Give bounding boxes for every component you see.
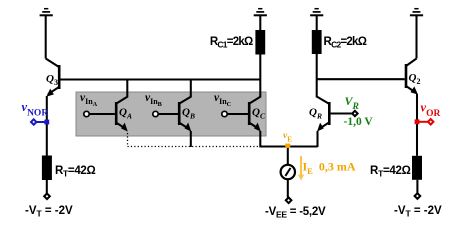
wire RT to terminal (46, 180, 48, 194)
wire emitter bus to vE and QR (259, 145, 317, 147)
terminal -VEE (265, 198, 326, 220)
svg-text:RT=42Ω: RT=42Ω (370, 165, 411, 179)
wire ground to Q3 collector (45, 15, 47, 58)
wire ground to RC2 (316, 15, 318, 30)
arrow IE (orange) (298, 156, 356, 181)
wire ground to Q2 collector (415, 15, 417, 58)
terminal -VT (right) (394, 193, 442, 218)
node vInA terminal (80, 92, 115, 117)
terminal VR (344, 94, 374, 128)
transistor Q3 (46, 59, 61, 97)
wire QB collector to bus (190, 80, 192, 98)
node vE (283, 131, 292, 148)
dotted wire QA emitter to common node (128, 133, 261, 147)
wire ground to RC1 (259, 15, 261, 30)
wire QC emitter down (259, 131, 261, 147)
terminal -VT (left) (25, 194, 73, 219)
resistor RC1 (210, 30, 265, 55)
resistor RC2 (312, 30, 367, 54)
wire Q2 emitter down to RT (416, 94, 418, 156)
wire QR base to VR terminal (331, 113, 352, 115)
current source IE (281, 165, 295, 179)
svg-text:-VT = -2V: -VT = -2V (394, 205, 442, 219)
transistor QB (178, 97, 195, 132)
node vInC terminal (214, 92, 248, 117)
ground (top-right) (410, 9, 423, 16)
node vNOR (22, 100, 50, 125)
wire QB emitter down (190, 131, 192, 147)
wire RC1 down to QC collector (259, 55, 261, 98)
wire Q3 emitter down to RT (46, 96, 48, 156)
transistor QA (115, 97, 132, 132)
wire RC2 down to QR collector (316, 54, 318, 98)
svg-text:RC1=2kΩ: RC1=2kΩ (210, 36, 253, 50)
wire QA collector to bus (126, 80, 128, 98)
node vInB terminal (145, 92, 178, 117)
ground (top-left) (40, 9, 53, 16)
wire RC2 junction to Q2 base (317, 78, 405, 80)
svg-text:-VT = -2V: -VT = -2V (25, 205, 73, 219)
transistor Q2 (405, 59, 421, 95)
svg-text:-VEE = -5,2V: -VEE = -5,2V (265, 206, 326, 220)
resistor RT (right) (370, 156, 422, 180)
wire QR emitter down (316, 131, 318, 147)
ground (above RC2) (310, 9, 323, 16)
node vOR (415, 101, 441, 125)
svg-text:RC2=2kΩ: RC2=2kΩ (324, 36, 367, 50)
wire vE to current source (287, 148, 289, 165)
ground (above RC1) (254, 9, 267, 16)
gray box (input transistor group) (76, 92, 266, 136)
transistor QC (248, 97, 266, 132)
svg-text:RT=42Ω: RT=42Ω (55, 165, 96, 179)
resistor RT (left) (42, 156, 96, 181)
wire current source to -VEE terminal (287, 179, 289, 197)
svg-text:-1,0 V: -1,0 V (344, 116, 374, 128)
transistor QR (309, 97, 331, 132)
wire base bus (Q3 base to RC1 line) (61, 78, 261, 80)
wire RT to terminal (416, 180, 418, 193)
